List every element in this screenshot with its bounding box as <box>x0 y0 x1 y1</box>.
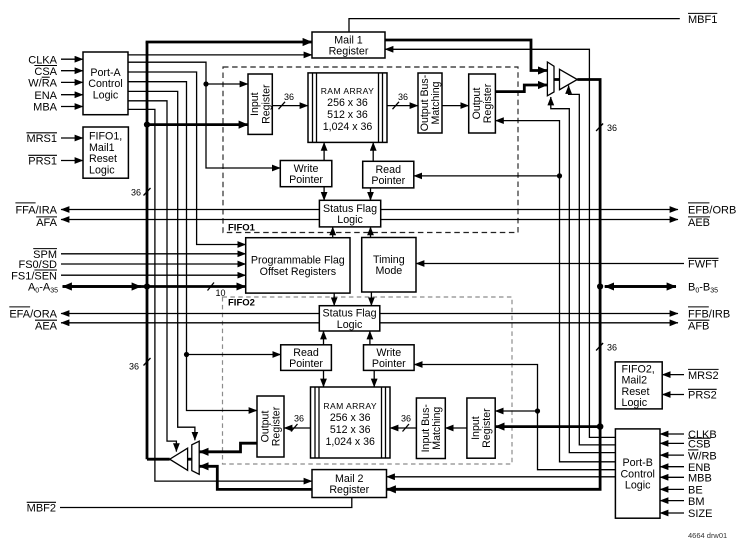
port label AFB <box>688 320 709 332</box>
mux A-port output select U2 <box>192 441 199 474</box>
svg-text:Read: Read <box>375 164 401 176</box>
bus RAM1 to Output Bus-Matching <box>387 105 418 107</box>
svg-text:Register: Register <box>271 406 283 446</box>
svg-text:10: 10 <box>216 288 226 298</box>
wire BE input <box>660 488 684 490</box>
svg-text:FIFO1,: FIFO1, <box>89 131 122 143</box>
svg-text:Write: Write <box>376 347 401 359</box>
register Output Register 1 <box>469 74 496 133</box>
bus-width slash 36 on A spine upper <box>144 188 151 196</box>
bus B to Input Register 2 <box>495 425 600 428</box>
svg-text:36: 36 <box>294 414 304 424</box>
svg-text:BM: BM <box>688 496 705 508</box>
FIFO1 dashed boundary <box>223 67 518 233</box>
svg-text:MRS2: MRS2 <box>688 370 719 382</box>
svg-text:MBB: MBB <box>688 473 712 485</box>
svg-text:Register: Register <box>260 84 272 124</box>
svg-text:FWFT: FWFT <box>688 259 719 271</box>
svg-text:36: 36 <box>607 343 617 353</box>
svg-text:Mail2: Mail2 <box>622 375 648 387</box>
port label W/RA <box>28 77 57 89</box>
svg-text:MBF1: MBF1 <box>688 14 717 26</box>
wire Timing Mode to Status Flag Logic 1 <box>370 227 372 238</box>
buffer B-port output driver <box>560 69 578 89</box>
bus Mail 1 Register to B-port mux <box>385 40 547 71</box>
svg-text:Logic: Logic <box>337 214 363 226</box>
port label MBB <box>688 473 712 485</box>
wire Port-A select to A-port mux <box>128 91 195 440</box>
bus Output Register 1 to B-port mux <box>495 85 547 92</box>
wire Write Pointer 1 to RAM1 <box>323 142 325 160</box>
wire Port-A enable to A-port buffer <box>128 101 176 452</box>
port label FFA/IRA <box>15 203 57 216</box>
svg-text:MBF2: MBF2 <box>27 503 56 515</box>
bus Input Bus-Matching to RAM2 <box>390 427 416 429</box>
register Input Register 1 <box>248 74 272 134</box>
bus A0-A35 bidirectional port <box>63 285 148 288</box>
wire CSA input <box>61 70 83 72</box>
svg-text:36: 36 <box>398 92 408 102</box>
port label BE <box>688 485 703 497</box>
svg-text:Register: Register <box>329 484 369 496</box>
wire MRS2 input <box>662 374 684 376</box>
svg-text:4664 drw01: 4664 drw01 <box>688 531 727 540</box>
svg-text:Pointer: Pointer <box>371 175 405 187</box>
wire Read Pointer 2 to Status Flag Logic 2 <box>323 331 325 345</box>
svg-text:EFA/ORA: EFA/ORA <box>9 308 57 320</box>
bus-width slash 36 on B spine upper <box>596 124 603 132</box>
svg-text:Offset Registers: Offset Registers <box>260 266 336 278</box>
svg-text:36: 36 <box>284 92 294 102</box>
svg-text:Control: Control <box>88 78 122 90</box>
port label EFA/ORA <box>9 307 57 320</box>
wire CSB input <box>660 442 684 444</box>
bus B-port buffer to B data spine <box>577 80 600 427</box>
svg-text:RAM ARRAY: RAM ARRAY <box>323 401 377 411</box>
box Port-B Control Logic <box>615 429 660 518</box>
svg-text:Matching: Matching <box>431 407 443 450</box>
wire MBA input <box>61 106 83 108</box>
svg-text:CSB: CSB <box>688 439 711 451</box>
port label AFA <box>36 217 57 229</box>
wire Write Pointer 2 to RAM2 <box>373 370 375 387</box>
wire Port-A read control to Read Pointer 2 and Output Register 2 <box>128 82 257 411</box>
wire W/RB input <box>660 454 684 456</box>
svg-text:FIFO2: FIFO2 <box>228 298 255 309</box>
svg-text:Port-A: Port-A <box>90 67 121 79</box>
bus A to A-port buffer output <box>147 458 170 461</box>
port label ENA <box>34 90 57 102</box>
port label MRS2 <box>688 369 719 381</box>
memory RAM ARRAY 1 <box>308 73 387 142</box>
bus A data spine vertical <box>146 42 149 459</box>
bus Mail 2 Register to A-port mux <box>199 466 312 489</box>
svg-text:BE: BE <box>688 485 703 497</box>
wire CLKB input <box>660 433 684 435</box>
svg-text:Port-B: Port-B <box>623 457 653 469</box>
wire BM input <box>660 500 684 502</box>
box Status Flag Logic 1 <box>319 200 380 227</box>
port label FFB/IRB <box>688 307 730 320</box>
svg-text:Read: Read <box>293 347 319 359</box>
wire EFA/ORA output <box>61 313 319 315</box>
wire Write Pointer 1 to Status Flag Logic 1 <box>323 187 325 201</box>
port label EFB/ORB <box>688 203 736 216</box>
svg-text:AEA: AEA <box>35 320 58 332</box>
buffer A-port output driver <box>170 448 188 470</box>
svg-text:EFB/ORB: EFB/ORB <box>688 204 736 216</box>
port label ENB <box>688 462 711 474</box>
mux B-port output select U1 <box>547 62 554 96</box>
port label A0-A35 <box>28 282 58 295</box>
svg-text:Output Bus-: Output Bus- <box>419 74 431 131</box>
svg-text:Timing: Timing <box>373 254 405 266</box>
bus 10-bit offset into Programmable Flag Offset Registers <box>147 285 246 288</box>
box FIFO1 Mail1 Reset Logic <box>83 127 128 178</box>
wire EFB/ORB output <box>381 209 678 211</box>
svg-text:Output: Output <box>260 411 272 443</box>
wire Port-A control to Programmable Flag Offset Registers <box>128 72 246 245</box>
wire Timing Mode to Status Flag Logic 2 <box>370 292 372 306</box>
port label CLKB <box>688 429 717 441</box>
svg-text:512 x 36: 512 x 36 <box>327 109 368 121</box>
wire AEA output <box>61 322 319 324</box>
FIFO2 dashed boundary <box>223 297 513 464</box>
box Timing Mode <box>362 238 416 293</box>
svg-text:W/RA: W/RA <box>28 78 57 90</box>
bus Output Register 2 to A-port mux <box>199 443 257 452</box>
box FIFO2 Mail2 Reset Logic <box>615 362 662 409</box>
wire FFA/IRA output <box>61 209 319 211</box>
bus-width slash 36 on B spine lower <box>596 343 603 351</box>
svg-text:W/RB: W/RB <box>688 450 717 462</box>
svg-text:Register: Register <box>482 83 494 123</box>
svg-text:Logic: Logic <box>93 89 119 101</box>
wire Port-B enable to B-port buffer <box>569 86 616 445</box>
svg-text:Write: Write <box>294 163 319 175</box>
wire PRS1 input <box>61 160 83 162</box>
svg-text:Input Bus-: Input Bus- <box>420 404 432 453</box>
port label SPM <box>33 249 57 261</box>
box Write Pointer 1 <box>280 161 332 187</box>
wire Read Pointer 1 to RAM1 <box>372 142 374 161</box>
svg-text:FFB/IRB: FFB/IRB <box>688 308 730 320</box>
svg-text:Programmable Flag: Programmable Flag <box>251 255 345 267</box>
wire Port-B write control to Write Pointer 2 and Input Register 2 <box>414 365 615 470</box>
bus B0-B35 bidirectional port <box>605 285 676 288</box>
wire ENA input <box>61 94 83 96</box>
wire Port-B control to Mail 2 Register <box>387 476 616 478</box>
bus RAM2 to Output Register 2 <box>284 427 311 429</box>
svg-text:256 x 36: 256 x 36 <box>330 412 371 424</box>
svg-text:CSA: CSA <box>34 66 57 78</box>
svg-text:Pointer: Pointer <box>289 358 323 370</box>
svg-text:Logic: Logic <box>625 480 651 492</box>
wire Port-B select to B-port mux <box>551 97 616 453</box>
memory RAM ARRAY 2 <box>311 387 391 458</box>
box Mail 2 Register <box>312 470 387 498</box>
port label FS1/SEN <box>11 270 57 282</box>
wire Read Pointer 1 to Status Flag Logic 1 <box>370 188 372 200</box>
port label AEB <box>688 217 710 229</box>
wire ENB input <box>660 466 684 468</box>
box Port-A Control Logic <box>83 52 128 115</box>
wire SPM input <box>61 253 246 255</box>
port label CLKA <box>28 54 57 66</box>
wire MBF1 flag from Mail 1 Register <box>349 19 680 32</box>
port label B0-B35 <box>688 282 718 295</box>
svg-text:Mail1: Mail1 <box>89 142 115 154</box>
wire Port-B read control to Output Register 1 and Read Pointer 1 <box>495 121 615 462</box>
bus A to Input Register 1 <box>147 123 248 126</box>
svg-text:512 x 36: 512 x 36 <box>330 424 371 436</box>
wire Write Pointer 2 to Status Flag Logic 2 <box>369 331 371 345</box>
wire W/RA input <box>61 81 83 83</box>
wire MBB input <box>660 476 684 478</box>
svg-text:CLKA: CLKA <box>28 54 57 66</box>
svg-text:36: 36 <box>131 188 141 198</box>
svg-text:256 x 36: 256 x 36 <box>327 97 368 109</box>
svg-text:SIZE: SIZE <box>688 508 712 520</box>
svg-text:Logic: Logic <box>337 319 363 331</box>
register Input Register 2 <box>467 398 495 458</box>
svg-text:Register: Register <box>329 46 369 58</box>
svg-text:AEB: AEB <box>688 217 710 229</box>
port label PRS1 <box>28 155 57 167</box>
register Output Register 2 <box>257 396 284 457</box>
box Programmable Flag Offset Registers <box>246 238 350 293</box>
port label W/RB <box>688 450 717 462</box>
svg-text:PRS1: PRS1 <box>28 156 57 168</box>
port label SIZE <box>688 508 712 520</box>
svg-text:FFA/IRA: FFA/IRA <box>15 204 57 216</box>
wire FS1/SEN input <box>61 274 246 276</box>
port label AEA <box>35 320 58 332</box>
svg-text:FIFO1: FIFO1 <box>228 223 256 234</box>
wire Port-A to Mail 1 Register control <box>128 54 312 56</box>
svg-text:36: 36 <box>607 123 617 133</box>
svg-text:Logic: Logic <box>89 164 115 176</box>
port label MBF1 <box>688 13 717 25</box>
port label BM <box>688 496 705 508</box>
bus B to Mail 2 Register <box>387 427 601 490</box>
wire Programmable Flag to Status Flag Logic 1 <box>332 227 334 238</box>
svg-text:MBA: MBA <box>33 102 58 114</box>
port label FS0/SD <box>18 259 57 271</box>
svg-text:Input: Input <box>249 92 261 116</box>
wire MBF2 flag from Mail 2 Register <box>60 498 352 508</box>
svg-text:Pointer: Pointer <box>372 358 406 370</box>
svg-text:36: 36 <box>401 414 411 424</box>
svg-text:PRS2: PRS2 <box>688 390 717 402</box>
wire Port-A control to Mail 2 Register <box>128 109 312 481</box>
svg-text:1,024 x 36: 1,024 x 36 <box>325 436 375 448</box>
port label PRS2 <box>688 389 717 401</box>
svg-text:Register: Register <box>481 408 493 448</box>
wire MRS1 input <box>61 137 83 139</box>
bus-width slash 36 on A spine lower <box>144 358 151 366</box>
register Input Bus-Matching 2 <box>416 398 445 459</box>
svg-text:Control: Control <box>620 468 654 480</box>
svg-text:FS1/SEN: FS1/SEN <box>11 270 57 282</box>
box Mail 1 Register <box>312 32 385 58</box>
bus-width slash 10 <box>208 283 215 291</box>
wire FS0/SD input <box>61 263 246 265</box>
svg-text:Reset: Reset <box>622 386 650 398</box>
svg-text:Reset: Reset <box>89 153 117 165</box>
port label CSA <box>34 66 57 78</box>
wire Port-B control to Mail 1 Register <box>385 49 615 437</box>
bus Output Bus-Matching to Output Register 1 <box>442 105 469 107</box>
wire Read Pointer 2 to RAM2 <box>323 370 325 387</box>
port label MRS1 <box>26 133 57 145</box>
wire AEB output <box>381 219 678 221</box>
svg-text:Status Flag: Status Flag <box>323 308 377 320</box>
svg-text:AFA: AFA <box>36 217 57 229</box>
box Read Pointer 1 <box>363 161 414 188</box>
svg-text:MRS1: MRS1 <box>26 133 57 145</box>
bus A to Mail 1 Register <box>146 41 312 44</box>
box Write Pointer 2 <box>364 345 415 371</box>
wire FWFT input <box>416 263 684 265</box>
wire PRS2 input <box>662 394 684 396</box>
port label MBA <box>33 102 58 114</box>
register Output Bus-Matching 1 <box>418 73 442 133</box>
svg-text:Logic: Logic <box>622 397 648 409</box>
wire Programmable Flag to Status Flag Logic 2 <box>333 293 335 306</box>
svg-text:Status Flag: Status Flag <box>323 203 377 215</box>
box Read Pointer 2 <box>281 345 332 371</box>
svg-text:Mail 2: Mail 2 <box>335 473 364 485</box>
wire SIZE input <box>660 512 684 514</box>
svg-text:ENA: ENA <box>34 90 57 102</box>
svg-text:36: 36 <box>129 362 139 372</box>
box Status Flag Logic 2 <box>319 306 380 331</box>
svg-text:FIFO2,: FIFO2, <box>622 364 655 376</box>
wire CLKA input <box>61 58 83 60</box>
port label FWFT <box>688 258 719 270</box>
svg-text:Mail 1: Mail 1 <box>334 34 363 46</box>
bus Input Register 2 to Input Bus-Matching <box>445 427 467 429</box>
svg-text:Matching: Matching <box>430 81 442 124</box>
wire AFB output <box>380 322 678 324</box>
svg-text:AFB: AFB <box>688 320 709 332</box>
wire AFA output <box>61 219 319 221</box>
port label CSB <box>688 438 711 450</box>
wire FFB/IRB output <box>380 313 678 315</box>
wire Port-A write control to Input Register 1 and Write Pointer 1 <box>128 62 280 168</box>
svg-text:RAM ARRAY: RAM ARRAY <box>321 86 375 96</box>
bus Input Register 1 to RAM1 <box>272 105 308 107</box>
port label MBF2 <box>27 502 56 514</box>
svg-text:Pointer: Pointer <box>289 174 323 186</box>
svg-text:Mode: Mode <box>375 265 402 277</box>
svg-text:Input: Input <box>470 416 482 440</box>
svg-text:1,024 x 36: 1,024 x 36 <box>323 121 373 133</box>
svg-text:FS0/SD: FS0/SD <box>18 259 57 271</box>
